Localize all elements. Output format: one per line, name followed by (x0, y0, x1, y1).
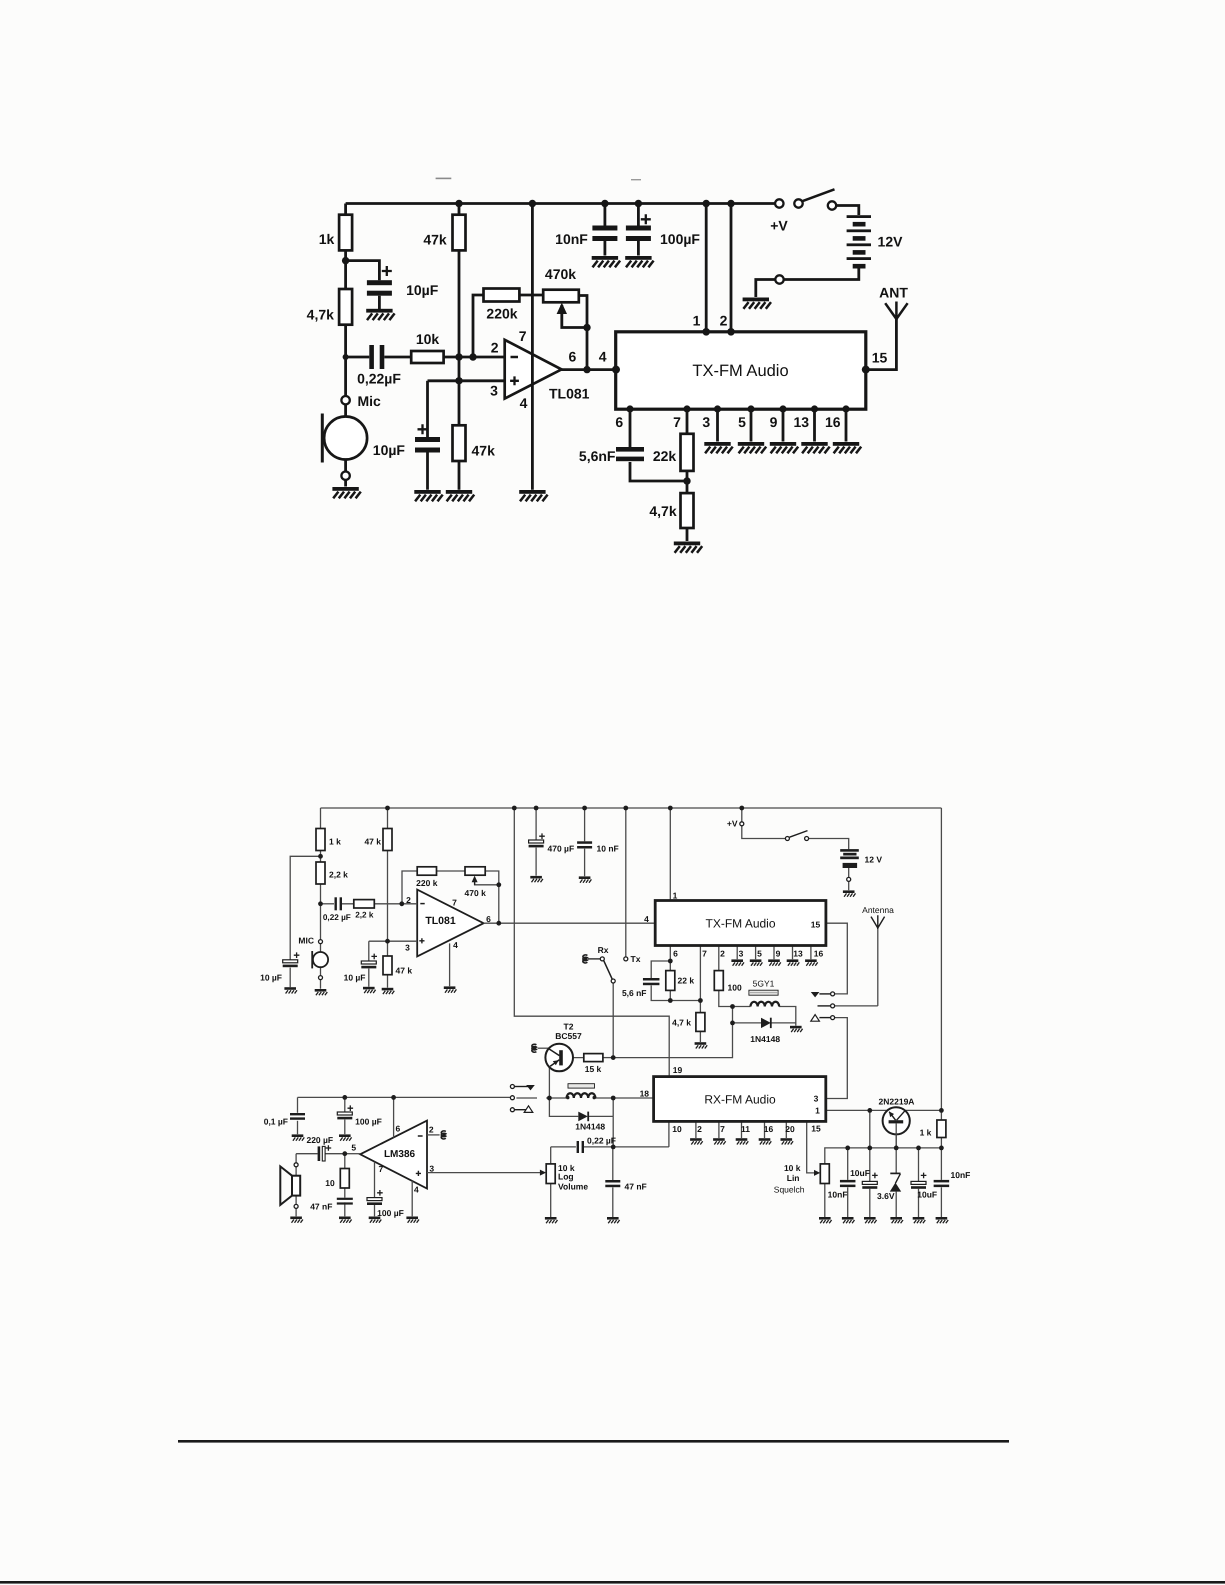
junction (512, 806, 517, 811)
junction (714, 405, 721, 412)
wire 100uF to ground (374, 1204, 376, 1216)
ground (625, 256, 653, 267)
pin label 1 (693, 312, 701, 328)
resistor 220k (416, 867, 438, 888)
wire tank right (779, 1007, 796, 1026)
op-amp TL081 body (505, 340, 562, 399)
wire junction to 10uF (346, 261, 380, 281)
ground (781, 1138, 794, 1144)
wire pin1 to bus (869, 1110, 871, 1148)
wire jack mid blade (516, 1097, 537, 1099)
wire LM386 pin4 (411, 1181, 413, 1217)
faint scan dash (436, 177, 452, 179)
junction (611, 1055, 616, 1060)
IC TX-FM Audio (616, 332, 866, 409)
jack left bottom (510, 1106, 532, 1113)
svg-text:10uF: 10uF (850, 1168, 870, 1178)
ground (743, 298, 771, 309)
capacitor 10nF sq (828, 1180, 856, 1200)
svg-text:16: 16 (764, 1124, 774, 1134)
wire input node to 0,22uF (346, 356, 370, 359)
ground (369, 1217, 382, 1223)
ground (833, 442, 861, 453)
svg-text:13: 13 (793, 948, 803, 958)
ground (674, 542, 702, 553)
jack left mid (510, 1096, 514, 1100)
svg-text:Mic: Mic (358, 393, 382, 409)
op-amp TL081 labels (405, 895, 491, 953)
wire 10uF b to ground (918, 1189, 920, 1217)
svg-text:100: 100 (728, 983, 742, 993)
connector (847, 877, 851, 881)
LM386 squiggle pin2 (441, 1131, 446, 1139)
wire zener (895, 1124, 897, 1173)
wire 1k to 4,7k (344, 250, 347, 289)
connector (775, 275, 783, 283)
wire squelch to ground (824, 1184, 826, 1218)
zener diode 3.6V (877, 1173, 901, 1201)
svg-text:47k: 47k (472, 442, 496, 458)
wire rail to Tx contact (625, 808, 627, 957)
wire 47nF to ground (344, 1202, 346, 1216)
wire antenna stem (877, 928, 879, 1006)
svg-text:1 k: 1 k (920, 1128, 932, 1138)
wire right edge (940, 808, 942, 1148)
svg-text:TL081: TL081 (425, 915, 456, 927)
wire TX pin13 stub (813, 409, 816, 442)
capacitor 0,1uF (264, 1113, 305, 1127)
svg-text:3: 3 (405, 942, 410, 952)
ground (750, 959, 763, 965)
capacitor 5,6nF (579, 447, 644, 464)
junction (683, 477, 690, 484)
potentiometer 10k squelch (774, 1163, 830, 1194)
wire 0,22uF left (551, 1147, 576, 1164)
svg-text:15: 15 (872, 350, 888, 366)
svg-text:Tx: Tx (631, 954, 641, 964)
svg-text:7: 7 (702, 948, 707, 958)
svg-text:47 k: 47 k (364, 837, 381, 847)
junction (455, 200, 462, 207)
svg-text:TX-FM Audio: TX-FM Audio (692, 362, 788, 380)
wire 220k left leg (402, 871, 417, 904)
svg-text:+V: +V (770, 218, 788, 234)
wire 10nF b to ground (940, 1187, 942, 1217)
wire 10uF to ground (289, 968, 291, 988)
svg-text:3.6V: 3.6V (877, 1191, 895, 1201)
svg-text:4,7k: 4,7k (307, 307, 334, 323)
svg-text:9: 9 (770, 414, 778, 430)
pin labels TX bottom (673, 948, 823, 958)
transistor T2 BC557 (532, 1021, 582, 1071)
ground (446, 490, 474, 501)
wire to 0,22uF node (612, 1116, 614, 1147)
svg-text:2: 2 (720, 948, 725, 958)
battery 12V (847, 215, 904, 268)
inductor RX coil (566, 1084, 596, 1100)
junction (703, 200, 710, 207)
svg-text:2: 2 (429, 1125, 434, 1135)
wire speaker to ground (295, 1208, 297, 1216)
svg-text:Log: Log (558, 1171, 574, 1181)
svg-text:12 V: 12 V (865, 854, 883, 864)
junction (702, 328, 710, 336)
resistor 1k (316, 829, 341, 851)
svg-text:4: 4 (644, 914, 649, 924)
ground (864, 1217, 877, 1223)
wire 100 to tank (719, 990, 733, 1006)
svg-text:5: 5 (738, 414, 746, 430)
junction (601, 200, 608, 207)
svg-text:2: 2 (406, 895, 411, 905)
wire T2 base to 15k (563, 1057, 584, 1059)
junction (399, 901, 404, 906)
wire 470k wiper (475, 878, 499, 885)
svg-text:100µF: 100µF (660, 231, 700, 247)
wire 470k wiper (562, 305, 587, 328)
svg-text:T2: T2 (564, 1021, 574, 1031)
wire TX pin13 stub (792, 946, 794, 960)
svg-text:10µF: 10µF (406, 282, 439, 298)
ground (363, 987, 376, 993)
junction (894, 1146, 899, 1151)
ground (545, 1217, 558, 1223)
pin labels bottom (615, 414, 840, 430)
svg-text:4: 4 (414, 1185, 419, 1195)
svg-text:7: 7 (720, 1124, 725, 1134)
wire 0,22uF node (584, 1146, 669, 1148)
junction (455, 377, 462, 384)
wire LM386 pin2 (427, 1134, 440, 1136)
wire RX coil left (546, 1097, 566, 1099)
junction (730, 1021, 735, 1026)
wire 10 to 47nF (344, 1188, 346, 1198)
capacitor 10uF sq (850, 1168, 878, 1189)
svg-text:4: 4 (520, 395, 528, 411)
svg-text:4: 4 (453, 940, 458, 950)
jack bottom contact (811, 1015, 835, 1022)
wire 47nF volume (612, 1147, 614, 1180)
wire TX pin9 stub (782, 409, 785, 442)
resistor 47k (364, 829, 392, 851)
junction (342, 1151, 347, 1156)
wire TX pin15 to ANT (866, 319, 897, 370)
potentiometer 470k (543, 266, 579, 328)
wire battery minus (848, 868, 850, 877)
op-amp TL081 body (417, 890, 483, 957)
wire LM386 rail (298, 1096, 511, 1098)
faint scan dash (631, 179, 641, 181)
potentiometer 10k volume (540, 1163, 588, 1192)
junction (916, 1146, 921, 1151)
antenna (862, 905, 894, 929)
wire 10nF (584, 808, 586, 841)
resistor 1k (319, 215, 352, 251)
junction (811, 405, 818, 412)
wire 10 ohm (344, 1154, 346, 1169)
wire RX pin10 (668, 1121, 670, 1147)
junction (739, 806, 744, 811)
svg-text:1k: 1k (319, 231, 335, 247)
wire TX pin3 stub (716, 409, 719, 442)
wire pin3 to 10uF (368, 941, 370, 961)
wire switch to battery (809, 839, 849, 850)
svg-text:LM386: LM386 (384, 1149, 416, 1160)
junction (391, 1095, 396, 1100)
junction (867, 1146, 872, 1151)
svg-text:3: 3 (739, 948, 744, 958)
wire 0,1uF (297, 1097, 299, 1112)
junction (623, 806, 628, 811)
junction (385, 939, 390, 944)
wire TX pin1 (705, 204, 708, 332)
page bottom border (0, 1581, 1225, 1584)
wire +V drop (741, 808, 743, 822)
jack top contact (811, 992, 835, 998)
svg-text:RX-FM Audio: RX-FM Audio (704, 1092, 776, 1106)
wire volume to ground (550, 1184, 552, 1218)
junction (582, 806, 587, 811)
antenna ANT (879, 285, 908, 321)
svg-text:47k: 47k (423, 231, 447, 247)
ground (592, 256, 620, 267)
junction (611, 1145, 616, 1150)
capacitor 5,6nF (622, 978, 660, 998)
resistor 4,7k (307, 289, 352, 325)
ground (284, 987, 297, 993)
junction (668, 998, 673, 1003)
svg-text:7: 7 (452, 897, 457, 907)
wire switch to battery (836, 206, 859, 216)
wire 220k to 470k (519, 294, 543, 297)
svg-text:0,22µF: 0,22µF (357, 371, 401, 387)
svg-text:1: 1 (693, 312, 701, 328)
wire 47nF to ground (612, 1187, 614, 1217)
ground (414, 490, 442, 501)
wire rail to RX pin19 (514, 808, 669, 1077)
ground (801, 442, 829, 453)
svg-text:0,1 µF: 0,1 µF (264, 1117, 288, 1127)
wire 10nF (847, 1148, 849, 1180)
junction (779, 405, 786, 412)
svg-text:Antenna: Antenna (862, 905, 894, 915)
resistor 47k b (383, 956, 412, 976)
wire op-amp output (562, 368, 616, 371)
capacitor 10nF sq b (934, 1170, 971, 1187)
wire diode 1N4148 leads (733, 1022, 796, 1024)
capacitor 47nF vol (605, 1180, 646, 1192)
svg-text:15 k: 15 k (585, 1064, 602, 1074)
wire TX pin1 (669, 808, 671, 901)
svg-text:MIC: MIC (298, 936, 314, 946)
wire TX pin16 stub (810, 946, 812, 960)
svg-text:2,2 k: 2,2 k (355, 911, 374, 920)
wire TX pin7 (699, 946, 701, 1013)
svg-text:TX-FM Audio: TX-FM Audio (705, 916, 775, 930)
wire TX pin2 (718, 946, 720, 971)
svg-text:3: 3 (429, 1164, 434, 1174)
battery 12V (840, 849, 882, 868)
junction (698, 998, 703, 1003)
wire 100uF (344, 1097, 346, 1111)
ground (444, 986, 457, 992)
svg-text:1 k: 1 k (329, 837, 341, 847)
svg-text:Rx: Rx (598, 945, 609, 955)
junction (583, 366, 590, 373)
wire 10nF to ground (847, 1187, 849, 1217)
svg-text:5: 5 (757, 948, 762, 958)
wire pin3 to 10uF (426, 381, 429, 437)
junction (842, 405, 849, 412)
wire RX pin11 stub (741, 1121, 743, 1138)
pin label 1 (673, 890, 678, 900)
junction (867, 1108, 872, 1113)
svg-text:6: 6 (673, 948, 678, 958)
pin label 15 (811, 919, 821, 929)
pin label 3 (814, 1093, 819, 1103)
wire 0,22uF to pin2 (342, 903, 418, 905)
junction (318, 854, 323, 859)
wire 47k to ground (387, 975, 389, 988)
pin label 1 (815, 1105, 820, 1115)
junction (611, 1096, 616, 1101)
junction (730, 1004, 735, 1009)
svg-text:Squelch: Squelch (774, 1184, 805, 1194)
svg-text:100 µF: 100 µF (355, 1117, 382, 1127)
wire switch pole (612, 983, 614, 1058)
svg-text:18: 18 (640, 1089, 650, 1099)
ground (704, 442, 732, 453)
wire zener to ground (895, 1192, 897, 1217)
svg-text:47 nF: 47 nF (310, 1202, 332, 1212)
wire RX pin7 stub (718, 1121, 720, 1138)
wire 470uF (535, 808, 537, 840)
junction (342, 1095, 347, 1100)
svg-text:12V: 12V (878, 234, 904, 250)
svg-text:5: 5 (351, 1143, 356, 1153)
microphone MIC (298, 936, 328, 980)
wire input node to Mic (344, 357, 347, 487)
wire 1k column (320, 808, 322, 989)
svg-text:3: 3 (490, 383, 498, 399)
svg-text:6: 6 (569, 349, 577, 365)
svg-text:Volume: Volume (558, 1182, 588, 1192)
capacitor 100uF a (337, 1105, 382, 1126)
ground (759, 1138, 772, 1144)
wire 5,6nF branch (651, 961, 670, 978)
wire 10nF to ground (584, 849, 586, 877)
wire jack bottom to RX pin3 (826, 1018, 848, 1099)
junction (845, 1146, 850, 1151)
resistor 15k (584, 1054, 603, 1074)
svg-text:1N4148: 1N4148 (575, 1122, 605, 1132)
svg-text:2: 2 (720, 312, 728, 328)
svg-text:15: 15 (811, 919, 821, 929)
diode 1N4148 rx (575, 1112, 605, 1132)
wire LM386 pin6 (393, 1097, 395, 1137)
ground (768, 959, 781, 965)
capacitor 10nF rail (577, 841, 619, 853)
svg-text:5,6 nF: 5,6 nF (622, 988, 647, 998)
pin label 4 (644, 914, 649, 924)
ground (339, 1217, 352, 1223)
audio amp LM386 body (360, 1121, 427, 1189)
svg-text:20: 20 (785, 1124, 795, 1134)
svg-text:22k: 22k (653, 448, 677, 464)
wire 1k branch (344, 204, 347, 216)
ground (913, 1217, 926, 1223)
svg-text:4,7 k: 4,7 k (672, 1018, 691, 1028)
svg-text:ANT: ANT (879, 285, 908, 301)
capacitor 100uF (626, 214, 701, 247)
wire 5,6nF to 22k bottom (630, 462, 687, 481)
wire +V to switch (742, 826, 786, 839)
capacitor 0,22uF (323, 897, 351, 922)
contact Rx (583, 945, 609, 963)
wire input to 0,22uF (321, 903, 335, 905)
capacitor 10uF pin3 (344, 954, 377, 983)
wire 10nF top (604, 204, 607, 226)
resistor 10 (325, 1169, 349, 1189)
junction (626, 405, 633, 412)
resistor 4,7k (672, 1013, 705, 1032)
ground (770, 442, 798, 453)
ground (731, 959, 744, 965)
junction (496, 921, 501, 926)
svg-text:2: 2 (697, 1124, 702, 1134)
capacitor 10uF (373, 424, 440, 458)
svg-text:47 nF: 47 nF (625, 1182, 647, 1192)
junction (727, 200, 734, 207)
junction (343, 354, 349, 360)
svg-text:10µF: 10µF (373, 442, 406, 458)
svg-text:Lin: Lin (787, 1173, 800, 1183)
junction (683, 405, 690, 412)
svg-text:6: 6 (486, 914, 491, 924)
jack left top (510, 1085, 534, 1091)
resistor 2,2k (354, 900, 375, 920)
switch S1 (785, 831, 808, 841)
junction (547, 1096, 552, 1101)
wire 2N2219A base (895, 1123, 897, 1148)
wire 470k right leg (485, 871, 499, 923)
capacitor 470uF (529, 833, 575, 853)
wire +V top rail (346, 202, 776, 205)
junction (727, 328, 735, 336)
svg-text:0,22 µF: 0,22 µF (323, 913, 351, 922)
ground (382, 988, 395, 994)
wire RX pin1 line (826, 1109, 942, 1111)
wire TX pin16 stub (845, 409, 848, 442)
ground (842, 1217, 855, 1223)
svg-text:4: 4 (599, 349, 607, 365)
svg-text:10 µF: 10 µF (260, 972, 282, 982)
svg-text:0,22 µF: 0,22 µF (587, 1136, 616, 1146)
svg-text:220k: 220k (486, 306, 517, 322)
junction (747, 405, 754, 412)
wire 5,6nF bottom (651, 985, 700, 1000)
svg-text:11: 11 (741, 1124, 750, 1134)
junction (529, 200, 536, 207)
wire TX pin9 stub (773, 946, 775, 960)
wire 47k column (387, 808, 389, 956)
diode 1N4148 varicap (750, 1018, 780, 1044)
svg-text:BC557: BC557 (555, 1031, 582, 1041)
capacitor 0,22uF rx (577, 1136, 616, 1154)
wire connector to ground (756, 280, 776, 298)
ground (890, 1217, 903, 1223)
capacitor 0,22uF (357, 345, 401, 387)
